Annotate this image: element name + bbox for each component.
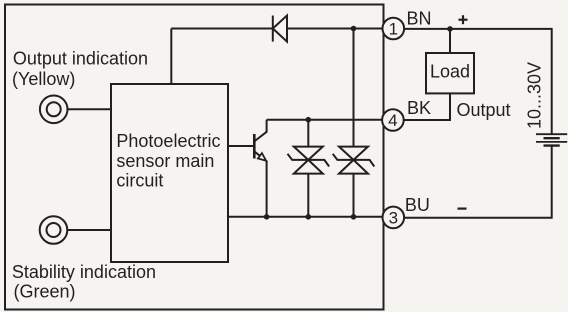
svg-text:(Yellow): (Yellow)	[12, 69, 75, 89]
svg-text:BU: BU	[405, 195, 430, 215]
junction dot load tap	[447, 26, 453, 32]
minus sign	[458, 208, 467, 210]
svg-text:circuit: circuit	[116, 171, 163, 191]
TVS suppressor diode Z1	[288, 120, 330, 217]
wire load bottom to terminal 4	[404, 93, 450, 120]
wire BN external	[404, 29, 552, 134]
junction dot on BN rail at TVS2 tap	[351, 26, 357, 32]
wire battery to BU rail	[404, 146, 551, 218]
svg-text:BK: BK	[407, 98, 431, 118]
junction dot TVS1-bottom rail	[306, 214, 312, 220]
battery B1	[536, 134, 567, 145]
plus sign	[459, 15, 468, 24]
svg-text:Stability indication: Stability indication	[12, 262, 156, 282]
svg-text:Load: Load	[430, 62, 470, 82]
svg-text:(Green): (Green)	[14, 282, 76, 302]
junction dot TVS2-bottom rail	[351, 214, 357, 220]
svg-text:10...30V: 10...30V	[525, 62, 545, 129]
sensor enclosure box	[5, 5, 384, 310]
svg-text:sensor main: sensor main	[116, 151, 214, 171]
TVS suppressor diode Z2	[333, 29, 375, 217]
wire yellow LED to main box	[68, 108, 112, 110]
wire from box top to BN rail	[170, 29, 172, 85]
svg-text:Output: Output	[457, 100, 511, 120]
yellow LED indicator	[40, 96, 68, 124]
wire green LED to main box	[67, 229, 111, 231]
svg-text:1: 1	[389, 20, 398, 39]
label Stability indication (Green)	[12, 262, 156, 302]
green LED indicator	[40, 216, 68, 244]
label Output indication (Yellow)	[12, 49, 148, 89]
wire emitter riser and bottom rail	[228, 216, 383, 218]
svg-text:Photoelectric: Photoelectric	[116, 131, 220, 151]
terminal 4	[382, 109, 404, 131]
junction dot emitter-bottom rail	[264, 214, 270, 220]
diode D1	[273, 16, 287, 42]
main circuit box	[111, 84, 228, 262]
transistor Q1	[228, 120, 267, 217]
load box	[426, 53, 474, 93]
label Photoelectric sensor main circuit	[116, 131, 220, 191]
wire load top	[449, 29, 451, 53]
svg-text:Output indication: Output indication	[13, 49, 148, 69]
junction dot BK-TVS1	[306, 117, 312, 123]
wire top BN rail inside (right of diode)	[287, 28, 383, 30]
wire top BN rail inside (left of diode)	[171, 28, 272, 30]
terminal 3	[383, 207, 405, 229]
svg-text:3: 3	[389, 209, 398, 228]
svg-text:4: 4	[388, 111, 397, 130]
svg-text:BN: BN	[407, 9, 432, 29]
terminal 1	[383, 18, 405, 40]
wire BK line from collector to terminal 4	[267, 119, 383, 121]
